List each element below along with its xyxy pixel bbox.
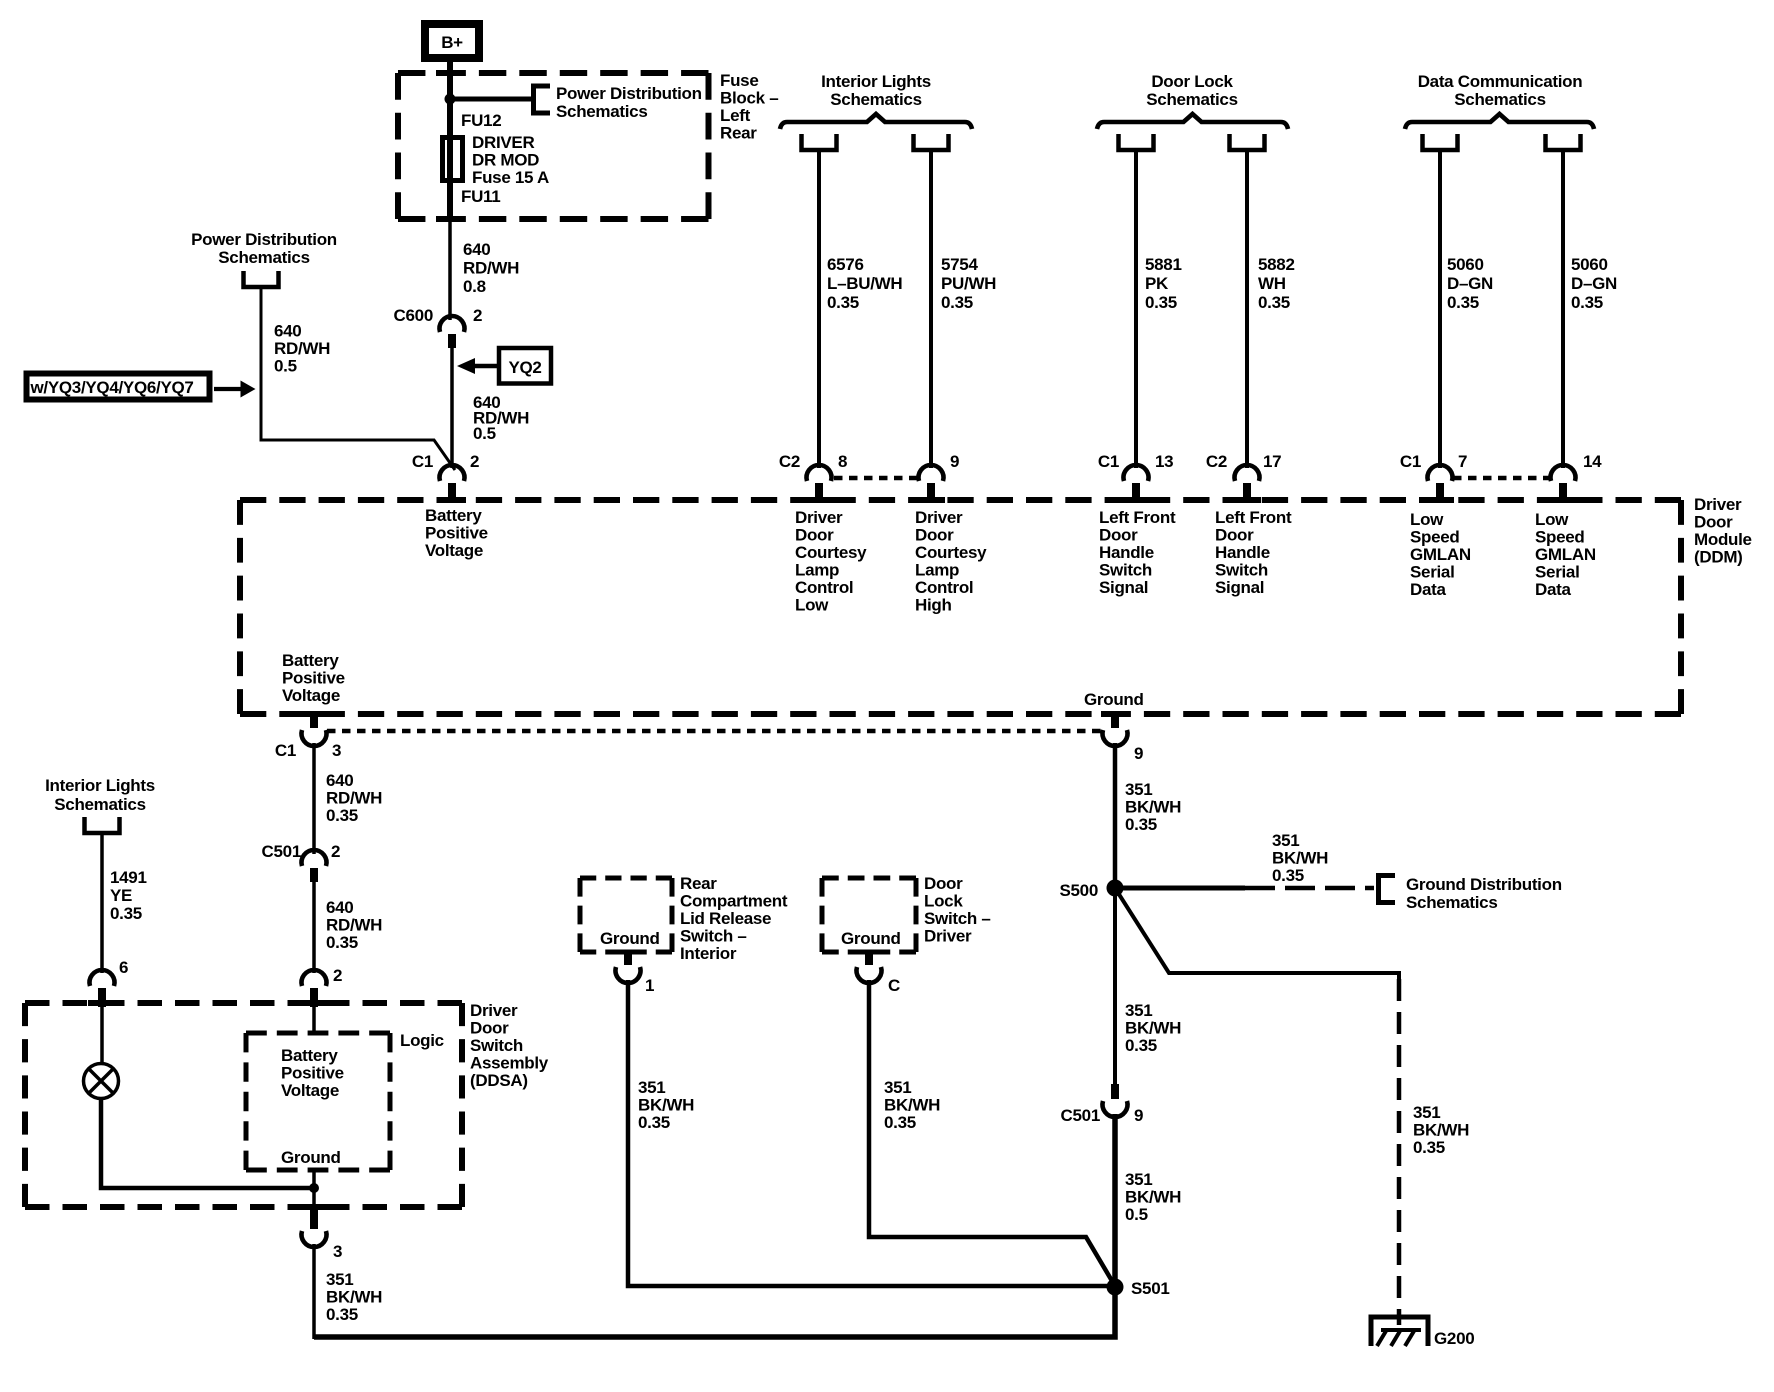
svg-text:C1: C1 [412,452,433,471]
connector pin 17 DDM [1235,465,1260,502]
svg-text:17: 17 [1263,452,1281,471]
svg-text:0.35: 0.35 [1258,293,1290,312]
svg-text:(DDSA): (DDSA) [470,1071,528,1090]
svg-text:Door: Door [924,874,963,893]
label pin 3 (DDSA) [333,1242,342,1261]
svg-text:GMLAN: GMLAN [1535,545,1596,564]
label pin 2 at C1 [470,452,479,471]
label C2 at pin 8 [779,452,800,471]
label S501 [1131,1279,1170,1298]
label pin 9 (top) [950,452,959,471]
label DRIVER DR MOD Fuse 15 A [472,133,549,187]
svg-text:Rear: Rear [680,874,717,893]
label Door Lock Schematics [1146,72,1238,109]
svg-text:0.35: 0.35 [110,904,142,923]
label 640 RD/WH 0.5 (right) [473,393,529,443]
svg-text:RD/WH: RD/WH [326,916,382,935]
svg-text:0.35: 0.35 [1125,1036,1157,1055]
label 351 BK/WH 0.35 (S500 to C501) [1125,1001,1181,1055]
label 5060 D-GN 0.35 right [1571,255,1617,312]
svg-text:3: 3 [333,1242,342,1261]
wire 640 RD/WH 0.35 to C501 [312,743,316,854]
junction lamp-ground [309,1183,319,1193]
svg-text:Schematics: Schematics [1146,90,1238,109]
dotted link C1-3 to pin 9 [327,729,1103,734]
svg-text:Driver: Driver [470,1001,518,1020]
svg-text:DRIVER: DRIVER [472,133,534,152]
svg-text:Switch –: Switch – [680,927,747,946]
wire logic ground down [312,1170,316,1210]
svg-text:Voltage: Voltage [282,686,340,705]
svg-text:Battery: Battery [282,651,339,670]
svg-text:Courtesy: Courtesy [915,543,987,562]
svg-text:5881: 5881 [1145,255,1182,274]
svg-text:L–BU/WH: L–BU/WH [827,274,902,293]
svg-text:0.35: 0.35 [1447,293,1479,312]
svg-text:Fuse 15 A: Fuse 15 A [472,168,549,187]
connector pin 14 DDM [1551,465,1576,502]
pigtail Power Distribution reference [244,271,279,287]
label pin 8 [838,452,847,471]
svg-text:Schematics: Schematics [830,90,922,109]
svg-text:351: 351 [1272,831,1299,850]
svg-text:640: 640 [326,898,353,917]
svg-text:Control: Control [915,578,973,597]
svg-text:6576: 6576 [827,255,864,274]
svg-text:PK: PK [1145,274,1169,293]
svg-text:D–GN: D–GN [1571,274,1617,293]
arrow YQ2 to wire [457,358,499,374]
arrow w/YQ3 to wire [214,381,256,398]
svg-text:G200: G200 [1434,1329,1474,1348]
svg-text:FU12: FU12 [461,111,501,130]
svg-text:0.35: 0.35 [827,293,859,312]
wire lamp to ground node [101,1099,314,1189]
svg-text:0.35: 0.35 [884,1113,916,1132]
label Ground (rear compartment) [600,929,660,948]
svg-text:Low: Low [1410,510,1444,529]
svg-text:9: 9 [1134,1106,1143,1125]
wire bottom run to S501 [314,1287,1115,1337]
svg-text:Switch: Switch [1215,561,1268,580]
wire 5060 D-GN left [1438,150,1442,468]
svg-text:FU11: FU11 [461,187,500,206]
label 351 BK/WH 0.5 [1125,1170,1181,1224]
brace door lock [1097,114,1288,129]
label 351 BK/WH 0.35 (pin1) [638,1078,694,1132]
label Low Speed GMLAN Serial Data (7) [1410,510,1471,599]
svg-text:Lock: Lock [924,892,963,911]
splice S501 [1107,1279,1124,1296]
wire 5060 D-GN right [1561,150,1565,468]
wire 5754 PU/WH [929,150,933,468]
svg-text:0.5: 0.5 [1125,1205,1148,1224]
svg-text:Interior Lights: Interior Lights [45,776,155,795]
svg-text:C2: C2 [1206,452,1227,471]
svg-text:BK/WH: BK/WH [884,1096,940,1115]
label S500 [1059,881,1098,900]
wire 1491 YE 0.35 [100,834,104,973]
label 5881 PK 0.35 [1145,255,1182,312]
connector pin 3 DDSA [302,1210,327,1247]
label Logic [400,1031,444,1050]
label C1 at pin 7 [1400,452,1421,471]
svg-text:Block –: Block – [720,89,778,108]
wire S500 diagonal to G200 drop [1115,888,1399,979]
connector pin 1 [615,950,640,983]
label 640 RD/WH 0.35 (upper) [326,771,382,825]
wire junction to power distribution bracket [450,97,532,102]
svg-text:Door: Door [915,526,954,545]
svg-text:351: 351 [1125,1170,1152,1189]
wire pin 9 to S500 [1113,743,1118,888]
pigtail door lock right [1230,134,1265,150]
svg-text:BK/WH: BK/WH [1125,1019,1181,1038]
label 1491 YE 0.35 [110,868,147,923]
svg-text:RD/WH: RD/WH [274,339,330,358]
label C1 at pin 3 [275,741,296,760]
wire 640 RD/WH 0.5 C600 to C1 [450,348,454,468]
svg-text:S500: S500 [1059,881,1098,900]
svg-text:Signal: Signal [1099,578,1148,597]
svg-text:Lamp: Lamp [915,561,959,580]
wire 5882 WH [1245,150,1249,468]
svg-text:Door Lock: Door Lock [1151,72,1233,91]
svg-text:Speed: Speed [1535,528,1585,547]
connector pin C [856,950,881,983]
svg-text:Ground: Ground [841,929,901,948]
svg-text:Door: Door [1694,513,1733,532]
label Interior Lights Schematics [821,72,931,109]
label Door Lock Switch - Driver [924,874,991,946]
power feed B+ terminal box [425,24,479,58]
svg-text:Schematics: Schematics [218,248,310,267]
label Power Distribution Schematics (fuse block) [556,84,702,121]
pigtail data comm right [1546,134,1581,150]
svg-text:351: 351 [638,1078,665,1097]
svg-text:C1: C1 [1098,452,1119,471]
svg-text:RD/WH: RD/WH [326,789,382,808]
svg-text:351: 351 [1125,780,1152,799]
label Left Front Door Handle Switch Signal (13) [1099,508,1176,597]
ground G200 symbol [1371,1317,1428,1346]
label 640 RD/WH 0.5 (left) [274,322,330,376]
wire 351 BK/WH 0.35 pin1 [628,980,1112,1286]
svg-text:351: 351 [326,1270,353,1289]
svg-text:14: 14 [1583,452,1602,471]
Door Lock Switch Driver box [822,878,916,952]
svg-text:C501: C501 [1061,1106,1100,1125]
label Battery Positive Voltage (logic) [281,1046,344,1100]
svg-text:Data Communication: Data Communication [1418,72,1583,91]
svg-text:Low: Low [795,596,829,615]
pigtail interior lights right [914,134,949,150]
svg-text:BK/WH: BK/WH [1125,798,1181,817]
wire 351 BK/WH 0.35 down [312,1244,316,1339]
label Driver Door Courtesy Lamp Control High [915,508,987,615]
svg-text:BK/WH: BK/WH [1125,1188,1181,1207]
svg-text:0.8: 0.8 [463,277,486,296]
svg-text:5754: 5754 [941,255,978,274]
svg-text:Switch –: Switch – [924,909,991,928]
Rear Compartment Lid Release Switch box [580,878,672,952]
label pin 17 [1263,452,1281,471]
svg-text:0.5: 0.5 [473,424,496,443]
svg-text:D–GN: D–GN [1447,274,1493,293]
svg-text:6: 6 [119,958,128,977]
label pin 1 [645,976,654,995]
svg-text:DR MOD: DR MOD [472,151,539,170]
label C2 at pin 17 [1206,452,1227,471]
svg-text:Data: Data [1535,580,1571,599]
svg-text:Data: Data [1410,580,1446,599]
svg-text:Ground: Ground [1084,690,1144,709]
Driver Door Switch Assembly dashed box [25,1003,462,1207]
svg-text:Control: Control [795,578,853,597]
svg-text:C1: C1 [275,741,296,760]
svg-text:BK/WH: BK/WH [326,1288,382,1307]
connector pin 9 below DDM [1103,711,1128,746]
svg-text:Ground Distribution: Ground Distribution [1406,875,1562,894]
svg-text:BK/WH: BK/WH [638,1096,694,1115]
svg-text:w/YQ3/YQ4/YQ6/YQ7: w/YQ3/YQ4/YQ6/YQ7 [30,378,194,397]
svg-text:S501: S501 [1131,1279,1170,1298]
wire B+ to fuse block [447,58,453,219]
wire 640 RD/WH 0.8 fuse to C600 [448,219,452,320]
label Ground (door lock switch) [841,929,901,948]
label pin 2 at C501 [331,842,340,861]
label pin 2 at C600 [473,306,482,325]
svg-text:0.5: 0.5 [274,357,297,376]
svg-text:B+: B+ [441,33,463,52]
svg-text:0.35: 0.35 [326,806,358,825]
svg-text:Door: Door [1099,526,1138,545]
pigtail interior lights reference [85,817,120,833]
label C501 (pin9) [1061,1106,1100,1125]
svg-text:0.35: 0.35 [326,1305,358,1324]
svg-text:BK/WH: BK/WH [1413,1121,1469,1140]
label pin 9 (below DDM) [1134,744,1143,763]
svg-text:BK/WH: BK/WH [1272,849,1328,868]
wire 351 BK/WH 0.35 pin C [869,980,1115,1286]
svg-text:0.35: 0.35 [638,1113,670,1132]
label FU11 [461,187,500,206]
svg-text:2: 2 [470,452,479,471]
svg-text:7: 7 [1458,452,1467,471]
junction in fuse block [445,94,456,105]
label 351 BK/WH 0.35 (pin C) [884,1078,940,1132]
dashed wire 351 BK/WH 0.35 to G200 [1397,979,1402,1325]
label Ground (DDM pin 9) [1084,690,1144,709]
svg-text:2: 2 [333,966,342,985]
label Data Communication Schematics [1418,72,1583,109]
connector C1 pin 2 into DDM [439,465,464,502]
wire 640 RD/WH 0.35 to DDSA [312,882,316,973]
dashed link pins 8-9 [834,476,917,481]
connector pin 8 DDM [807,465,832,502]
label 640 RD/WH 0.35 (lower) [326,898,382,952]
label C1 at pin 13 [1098,452,1119,471]
label pin 6 [119,958,128,977]
fuse block dashed box [398,73,709,219]
svg-text:9: 9 [950,452,959,471]
wire 640 RD/WH 0.5 from power distribution [261,287,455,470]
svg-text:Door: Door [1215,526,1254,545]
svg-text:Interior: Interior [680,944,737,963]
svg-text:Left Front: Left Front [1099,508,1176,527]
svg-text:Driver: Driver [915,508,963,527]
svg-text:351: 351 [1125,1001,1152,1020]
label Driver Door Courtesy Lamp Control Low [795,508,867,615]
svg-text:Compartment: Compartment [680,892,788,911]
Driver Door Module DDM dashed box [240,500,1681,714]
svg-text:13: 13 [1155,452,1173,471]
svg-text:Power Distribution: Power Distribution [191,230,337,249]
svg-text:Schematics: Schematics [1406,893,1498,912]
pigtail interior lights left [802,134,837,150]
svg-text:Assembly: Assembly [470,1054,549,1073]
connector pin 13 DDM [1124,465,1149,502]
svg-text:Ground: Ground [281,1148,341,1167]
connector pin 2 DDSA [302,970,327,1007]
label G200 [1434,1329,1474,1348]
svg-text:0.35: 0.35 [1571,293,1603,312]
label pin 3 (C1) [332,741,341,760]
wire S500 to C501-9 [1113,895,1117,1085]
splice S500 [1107,880,1124,897]
svg-text:640: 640 [274,322,301,341]
fuse FU11 DRIVER DR MOD 15A [443,138,463,181]
svg-text:351: 351 [884,1078,911,1097]
svg-text:Left: Left [720,106,751,125]
svg-text:Left Front: Left Front [1215,508,1292,527]
svg-text:High: High [915,596,952,615]
dashed link pins 7-14 [1453,476,1549,481]
label 5882 WH 0.35 [1258,255,1295,312]
callout YQ2 box [499,348,551,384]
svg-text:WH: WH [1258,274,1286,293]
label Driver Door Module (DDM) [1694,495,1752,567]
svg-text:5060: 5060 [1571,255,1608,274]
svg-text:Ground: Ground [600,929,660,948]
label Rear Compartment Lid Release Switch - Interior [680,874,788,963]
svg-text:0.35: 0.35 [326,933,358,952]
svg-text:Interior Lights: Interior Lights [821,72,931,91]
brace data communication [1405,114,1594,129]
svg-text:Driver: Driver [1694,495,1742,514]
svg-text:5060: 5060 [1447,255,1484,274]
svg-text:0.35: 0.35 [941,293,973,312]
svg-text:0.35: 0.35 [1413,1138,1445,1157]
label C501 (pin2) [262,842,301,861]
svg-text:Courtesy: Courtesy [795,543,867,562]
label pin 2 at DDSA [333,966,342,985]
svg-text:Fuse: Fuse [720,71,758,90]
svg-text:640: 640 [463,240,490,259]
svg-text:Low: Low [1535,510,1569,529]
svg-text:Serial: Serial [1410,563,1455,582]
connector pin 6 DDSA [90,970,115,1007]
bracket Ground Distribution Schematics [1379,876,1396,903]
svg-text:Lid Release: Lid Release [680,909,771,928]
svg-text:0.35: 0.35 [1145,293,1177,312]
label Left Front Door Handle Switch Signal (17) [1215,508,1292,597]
svg-text:YQ2: YQ2 [508,358,541,377]
svg-text:YE: YE [110,886,132,905]
svg-text:Positive: Positive [282,669,345,688]
svg-text:(DDM): (DDM) [1694,548,1743,567]
svg-text:Speed: Speed [1410,528,1460,547]
pigtail door lock left [1119,134,1154,150]
svg-text:Driver: Driver [795,508,843,527]
connector pin 7 DDM [1427,465,1452,502]
svg-text:Handle: Handle [1215,543,1270,562]
svg-text:Schematics: Schematics [54,795,146,814]
label Ground Distribution Schematics [1406,875,1562,912]
label Interior Lights Schematics (left) [45,776,155,814]
svg-text:9: 9 [1134,744,1143,763]
label 351 BK/WH 0.35 (S500 branch) [1272,831,1328,885]
label pin C [888,976,900,995]
svg-text:Positive: Positive [425,524,488,543]
lamp courtesy [84,1064,119,1099]
svg-text:RD/WH: RD/WH [463,259,519,278]
svg-text:PU/WH: PU/WH [941,274,996,293]
svg-text:Handle: Handle [1099,543,1154,562]
svg-text:Switch: Switch [1099,561,1152,580]
label pin 7 [1458,452,1467,471]
svg-text:GMLAN: GMLAN [1410,545,1471,564]
wire 5881 PK [1134,150,1138,468]
pigtail data comm left [1423,134,1458,150]
svg-text:5882: 5882 [1258,255,1295,274]
connector C501 pin 2 [302,850,327,882]
svg-text:351: 351 [1413,1103,1440,1122]
label pin 9 at C501 [1134,1106,1143,1125]
svg-text:Module: Module [1694,530,1752,549]
svg-text:Battery: Battery [425,506,482,525]
label 5060 D-GN 0.35 left [1447,255,1493,312]
connector C501 pin 9 [1103,1084,1128,1117]
logic dashed box [246,1033,390,1170]
label 640 RD/WH 0.8 [463,240,519,296]
label 351 BK/WH 0.35 (G200) [1413,1103,1469,1157]
label pin 13 [1155,452,1173,471]
label Battery Positive Voltage (pin 2) [425,506,488,560]
svg-text:C501: C501 [262,842,301,861]
label Ground (logic) [281,1148,341,1167]
label Power Distribution Schematics (left) [191,230,337,267]
label 5754 PU/WH 0.35 [941,255,996,312]
svg-text:Positive: Positive [281,1064,344,1083]
svg-text:2: 2 [473,306,482,325]
callout w/YQ3/YQ4/YQ6/YQ7 box [27,374,210,400]
svg-text:Power Distribution: Power Distribution [556,84,702,103]
label Low Speed GMLAN Serial Data (14) [1535,510,1596,599]
svg-text:640: 640 [326,771,353,790]
svg-text:C1: C1 [1400,452,1421,471]
connector pin 9 DDM [918,465,943,502]
label 6576 L-BU/WH 0.35 [827,255,902,312]
wire 351 BK/WH 0.5 to S501 [1112,1114,1118,1287]
svg-text:Battery: Battery [281,1046,338,1065]
label FU12 [461,111,501,130]
connector C1 pin 3 below DDM [302,711,327,746]
wire pin2 to logic box [312,1006,316,1033]
svg-text:Schematics: Schematics [556,102,648,121]
svg-text:Voltage: Voltage [281,1081,339,1100]
label Fuse Block - Left Rear [720,71,778,143]
